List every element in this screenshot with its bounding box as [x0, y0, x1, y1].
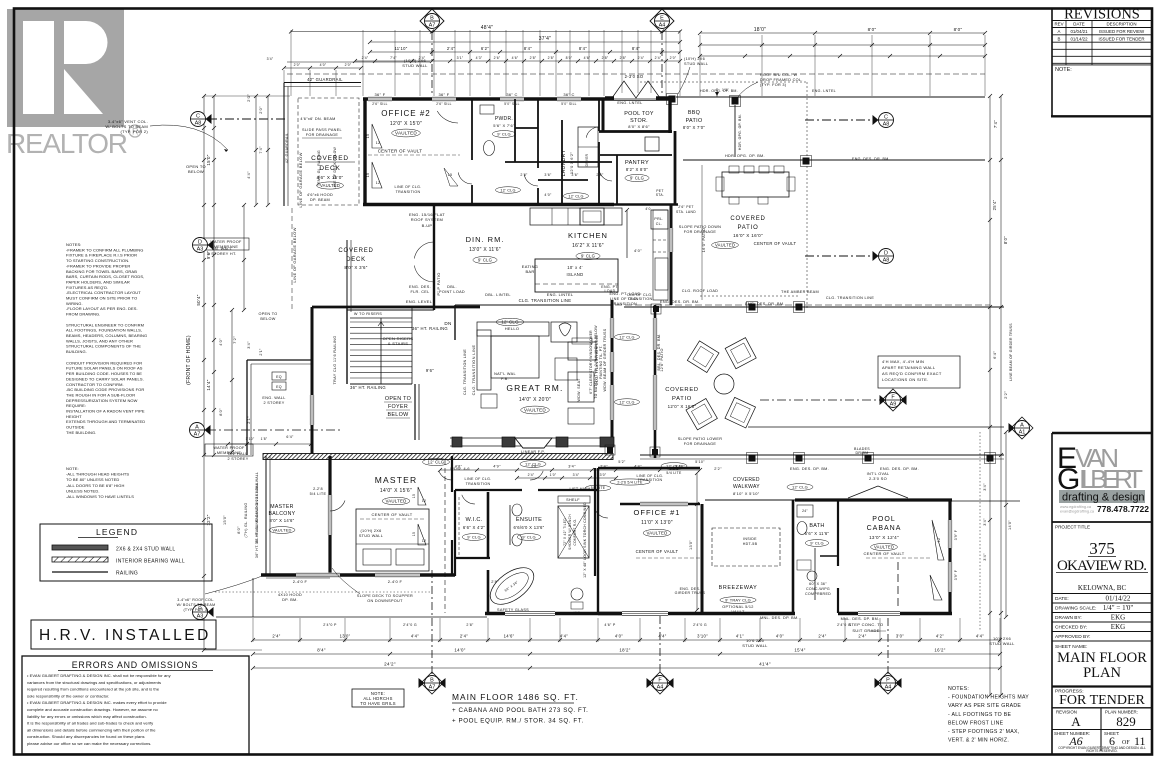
svg-text:HEIGHT: HEIGHT	[66, 414, 82, 419]
notes right bottom	[948, 686, 1029, 744]
svg-text:-ALL DOORS TO BE 6'8" HIGH: -ALL DOORS TO BE 6'8" HIGH	[66, 483, 125, 488]
svg-text:PATIO: PATIO	[686, 118, 703, 124]
svg-text:VAULTED: VAULTED	[395, 131, 417, 136]
svg-text:2-3'0 SO: 2-3'0 SO	[869, 476, 887, 481]
svg-text:ENG. LNTEL: ENG. LNTEL	[617, 101, 642, 105]
svg-text:12' CLG: 12' CLG	[619, 335, 634, 339]
svg-text:36" F: 36" F	[375, 92, 386, 97]
svg-text:ENG. WALL: ENG. WALL	[262, 396, 285, 400]
svg-text:2'4": 2'4"	[447, 46, 455, 51]
svg-text:2'4"0 G: 2'4"0 G	[403, 623, 417, 627]
svg-text:VAULTED: VAULTED	[272, 527, 291, 532]
svg-text:3'4": 3'4"	[573, 473, 580, 477]
svg-text:STUD WALL: STUD WALL	[684, 62, 708, 66]
svg-text:CHECKED BY:: CHECKED BY:	[1055, 625, 1087, 631]
svg-text:HDR. OPG. OP. BM.: HDR. OPG. OP. BM.	[700, 89, 738, 93]
svg-text:- FOUNDATION HEIGHTS MAY: - FOUNDATION HEIGHTS MAY	[948, 695, 1029, 701]
svg-text:• EVAN GILBERT DRAFTING & DESI: • EVAN GILBERT DRAFTING & DESIGN INC. ma…	[27, 700, 167, 705]
svg-text:-ELECTRICAL CONTRACTOR LAYOUT: -ELECTRICAL CONTRACTOR LAYOUT	[66, 290, 141, 295]
svg-text:-BC BUILDING CODE PROVISIONS F: -BC BUILDING CODE PROVISIONS FOR	[66, 387, 144, 392]
svg-text:829: 829	[1116, 714, 1136, 729]
svg-text:construction. Should any disc: construction. Should any discrepancies b…	[27, 734, 145, 739]
svg-text:SLOPE PATIO LOWER: SLOPE PATIO LOWER	[678, 437, 723, 441]
svg-text:STA. LAND: STA. LAND	[676, 210, 696, 214]
svg-text:5'0" SILL: 5'0" SILL	[561, 102, 576, 106]
svg-text:2-3'0 SO: 2-3'0 SO	[625, 74, 644, 79]
svg-text:2'6": 2'6"	[494, 56, 501, 60]
svg-text:HDT-5B: HDT-5B	[743, 542, 758, 546]
svg-text:11'10": 11'10"	[394, 46, 407, 51]
svg-text:2'0": 2'0"	[345, 63, 352, 67]
svg-text:LOCATIONS ON SITE.: LOCATIONS ON SITE.	[882, 377, 928, 382]
svg-text:EXTENDS THROUGH AND TERMINATED: EXTENDS THROUGH AND TERMINATED	[66, 419, 145, 424]
svg-text:MUST CONFIRM ON SITE PRIOR TO: MUST CONFIRM ON SITE PRIOR TO	[66, 296, 137, 301]
svg-text:STUD WALL: STUD WALL	[742, 643, 768, 648]
svg-text:5'2": 5'2"	[618, 460, 626, 464]
svg-text:13'0" X 12'4": 13'0" X 12'4"	[869, 535, 899, 540]
svg-text:778.478.7722: 778.478.7722	[1097, 504, 1149, 514]
svg-text:36" HT. RAILING: 36" HT. RAILING	[412, 326, 448, 331]
svg-text:4'1": 4'1"	[736, 634, 744, 639]
svg-text:FIXTURES AS REQ'D.: FIXTURES AS REQ'D.	[66, 285, 108, 290]
svg-text:W.I.C.: W.I.C.	[465, 517, 482, 523]
svg-text:liability for any errors or om: liability for any errors or omissions wh…	[27, 714, 147, 719]
svg-text:ISSUED FOR TENDER: ISSUED FOR TENDER	[1098, 36, 1144, 41]
svg-text:(TYP. FOR 3): (TYP. FOR 3)	[760, 83, 787, 87]
svg-text:THE AMBER BEAM: THE AMBER BEAM	[781, 290, 819, 294]
svg-text:LINE OF GARAGE BELOW: LINE OF GARAGE BELOW	[292, 227, 297, 282]
svg-text:5/4 LITE: 5/4 LITE	[310, 492, 327, 496]
markers (section symbols)	[186, 9, 1030, 691]
svg-text:STA.: STA.	[656, 193, 664, 197]
svg-text:3'9" F: 3'9" F	[954, 530, 958, 540]
svg-text:ALL FOOTINGS, FOUNDATION WALLS: ALL FOOTINGS, FOUNDATION WALLS,	[66, 328, 142, 333]
svg-text:A8: A8	[883, 258, 890, 264]
svg-text:14'0": 14'0"	[1008, 520, 1012, 530]
svg-text:2'6": 2'6"	[596, 173, 604, 177]
svg-text:- ALL FOOTINGS TO BE: - ALL FOOTINGS TO BE	[948, 712, 1012, 718]
svg-text:It is the responsibility of al: It is the responsibility of all trades a…	[27, 721, 154, 726]
svg-text:5/4 LITE: 5/4 LITE	[666, 471, 682, 475]
svg-text:FIXTURE & FIREPLACE R.I.S PRI: FIXTURE & FIREPLACE R.I.S PRIOR	[66, 253, 137, 258]
svg-text:• EVAN GILBERT DRAFTING & DESI: • EVAN GILBERT DRAFTING & DESIGN INC. sh…	[27, 673, 172, 678]
svg-text:4'9": 4'9"	[493, 465, 501, 469]
svg-text:DESIGNED TO CARRY SOLAR PANELS: DESIGNED TO CARRY SOLAR PANELS.	[66, 376, 144, 381]
svg-text:7'4": 7'4"	[390, 56, 397, 60]
covered patios right	[605, 82, 1004, 458]
svg-text:2'4": 2'4"	[528, 473, 535, 477]
svg-text:4'0": 4'0"	[776, 634, 784, 639]
svg-text:OPEN TO: OPEN TO	[385, 396, 411, 402]
upper strip fixtures	[437, 105, 659, 186]
svg-text:12' CLG: 12' CLG	[568, 194, 583, 198]
svg-text:7'2": 7'2"	[232, 336, 237, 344]
svg-text:COVERED: COVERED	[733, 477, 760, 483]
svg-text:www.egdrafting.ca: www.egdrafting.ca	[1060, 505, 1092, 509]
svg-text:ON DOWNSPOUT: ON DOWNSPOUT	[367, 599, 403, 603]
svg-text:REV: REV	[1054, 22, 1063, 27]
legend box	[40, 524, 212, 581]
svg-text:15'0": 15'0"	[206, 154, 211, 165]
svg-text:SLOPE DECK TO SCUPPER: SLOPE DECK TO SCUPPER	[357, 594, 413, 598]
hall dims band	[438, 460, 705, 613]
right outer dim col	[689, 471, 699, 612]
svg-text:A7: A7	[429, 23, 436, 29]
svg-text:6'6" X 4'2": 6'6" X 4'2"	[463, 525, 486, 530]
svg-text:drafting & design: drafting & design	[1062, 492, 1145, 504]
svg-text:16'0" PATIO: 16'0" PATIO	[701, 228, 706, 253]
svg-text:12: 12	[376, 141, 381, 145]
svg-text:2'0": 2'0"	[259, 106, 263, 114]
svg-text:ENG. DES. DR. BM.: ENG. DES. DR. BM.	[852, 157, 890, 161]
svg-text:EKG: EKG	[1111, 614, 1125, 622]
covered walkway strip	[640, 447, 1004, 496]
svg-text:NAT'L WAL: NAT'L WAL	[494, 372, 516, 376]
svg-text:CLG. TRANSITION LINE: CLG. TRANSITION LINE	[463, 349, 467, 395]
svg-text:EKG: EKG	[1111, 623, 1125, 631]
svg-text:8'0": 8'0"	[868, 27, 877, 32]
great room	[450, 297, 990, 454]
svg-text:2 STOREY: 2 STOREY	[227, 457, 248, 461]
svg-text:please advise our office so we: please advise our office so we can make …	[27, 741, 151, 746]
svg-text:14'6": 14'6"	[504, 634, 515, 639]
svg-text:2'8": 2'8"	[530, 56, 537, 60]
svg-text:WIRING.: WIRING.	[66, 301, 83, 306]
svg-text:OUTSIDE: OUTSIDE	[66, 425, 85, 430]
upper strip outer walls	[363, 97, 674, 100]
svg-text:2'2": 2'2"	[714, 467, 722, 471]
second density pass	[223, 89, 1033, 694]
svg-text:13'0" X 11'6": 13'0" X 11'6"	[469, 247, 501, 253]
svg-text:3'6": 3'6"	[544, 173, 552, 177]
svg-text:60" X 36": 60" X 36"	[809, 582, 827, 586]
svg-text:3'0": 3'0"	[896, 634, 904, 639]
svg-text:1'10": 1'10"	[245, 437, 255, 441]
svg-text:VAULTED: VAULTED	[386, 499, 407, 504]
svg-text:ENG. LINTEL: ENG. LINTEL	[547, 293, 574, 297]
svg-text:LINE BEAM OF GIRDER TRUSS: LINE BEAM OF GIRDER TRUSS	[1009, 323, 1013, 381]
svg-text:50'4": 50'4"	[196, 294, 201, 305]
svg-text:BELOW: BELOW	[188, 169, 204, 174]
svg-text:RIGHTS RESERVED.: RIGHTS RESERVED.	[1086, 749, 1117, 753]
svg-text:VAULTED: VAULTED	[524, 408, 546, 413]
svg-text:CL.: CL.	[656, 222, 663, 226]
svg-text:STEP CONC. TO: STEP CONC. TO	[849, 622, 884, 627]
svg-text:UNLESS NOTED.: UNLESS NOTED.	[66, 488, 100, 493]
svg-text:1'8": 1'8"	[261, 437, 268, 441]
svg-text:-ALL THROUGH HEAD HEIGHTS: -ALL THROUGH HEAD HEIGHTS	[66, 472, 129, 477]
svg-text:-FLOOR LAYOUT AS PER ENG. DES.: -FLOOR LAYOUT AS PER ENG. DES.	[66, 306, 138, 311]
svg-text:2'8": 2'8"	[602, 56, 609, 60]
svg-text:+ POOL EQUIP. RM./ STOR. 34 SQ: + POOL EQUIP. RM./ STOR. 34 SQ. FT.	[452, 718, 584, 725]
svg-text:INT'L OVAL: INT'L OVAL	[867, 472, 890, 476]
svg-text:DROP FRAMED COL.: DROP FRAMED COL.	[760, 78, 803, 82]
svg-text:16'0" X 16'0": 16'0" X 16'0"	[733, 233, 763, 238]
svg-text:STRUCTURAL COMPONENTS OF THE: STRUCTURAL COMPONENTS OF THE	[66, 344, 141, 349]
svg-text:2'4"0 G: 2'4"0 G	[693, 623, 707, 627]
svg-text:VERT. & 2' MIN HORIZ.: VERT. & 2' MIN HORIZ.	[948, 738, 1009, 744]
svg-text:REVISIONS: REVISIONS	[1064, 7, 1140, 23]
svg-text:ERRORS AND OMISSIONS: ERRORS AND OMISSIONS	[72, 660, 198, 670]
svg-text:APART RETAINING WALL: APART RETAINING WALL	[882, 365, 936, 370]
plan: right dimension columns / property lines	[950, 94, 1020, 697]
svg-text:2'8": 2'8"	[491, 580, 499, 584]
plan: left dimension columns	[196, 94, 290, 652]
svg-text:3'0": 3'0"	[600, 473, 607, 477]
svg-text:SHELF: SHELF	[566, 498, 580, 502]
svg-text:3'4": 3'4"	[267, 57, 274, 61]
svg-text:ISLAND: ISLAND	[567, 272, 584, 277]
svg-text:12: 12	[422, 499, 426, 503]
evan gilbert logo	[1052, 433, 1151, 592]
svg-text:4'4": 4'4"	[411, 634, 419, 639]
svg-text:4'4": 4'4"	[247, 171, 251, 179]
svg-text:2'0": 2'0"	[670, 56, 677, 60]
svg-text:TRANSITION: TRANSITION	[396, 190, 421, 194]
svg-text:12' CLG: 12' CLG	[792, 484, 808, 489]
svg-text:2X6 & 2X4 STUD WALL: 2X6 & 2X4 STUD WALL	[116, 547, 175, 553]
svg-text:8'4": 8'4"	[579, 46, 587, 51]
svg-text:3'6": 3'6"	[571, 173, 579, 177]
svg-text:4'0": 4'0"	[219, 338, 223, 346]
svg-text:PRL.: PRL.	[654, 217, 663, 221]
svg-text:CENTER OF VAULT: CENTER OF VAULT	[863, 551, 904, 556]
svg-text:VAULTED: VAULTED	[715, 242, 735, 247]
svg-text:CONDUIT PROVISION REQUIRED FOR: CONDUIT PROVISION REQUIRED FOR	[66, 360, 142, 365]
svg-text:4'4": 4'4"	[634, 465, 642, 469]
svg-text:DN: DN	[444, 321, 451, 326]
boxed note: head heights	[66, 466, 134, 499]
plan: bottom dimension rows	[251, 618, 1002, 670]
svg-text:9' TRAY CLG: 9' TRAY CLG	[725, 597, 751, 602]
svg-text:2'4": 2'4"	[858, 634, 866, 639]
svg-text:8'0" X 7'0": 8'0" X 7'0"	[683, 125, 706, 130]
svg-text:A7: A7	[429, 685, 436, 691]
svg-text:SAFETY GLASS: SAFETY GLASS	[497, 608, 529, 612]
svg-text:9' CLG: 9' CLG	[630, 175, 644, 180]
svg-text:2'4": 2'4"	[272, 634, 280, 639]
svg-text:8'4": 8'4"	[632, 46, 640, 51]
svg-text:13'0": 13'0"	[689, 540, 693, 550]
svg-text:REQUIRE:: REQUIRE:	[66, 403, 86, 408]
bearing wall hatched	[263, 454, 613, 460]
svg-text:3'8": 3'8"	[531, 465, 539, 469]
svg-text:36" F: 36" F	[439, 92, 450, 97]
svg-text:36" C: 36" C	[563, 92, 574, 97]
svg-text:9' CLG: 9' CLG	[581, 253, 595, 258]
svg-text:OFFICE #1: OFFICE #1	[634, 508, 681, 517]
svg-text:BATH: BATH	[809, 523, 824, 529]
svg-text:B: B	[430, 678, 434, 684]
svg-text:16'2": 16'2"	[934, 648, 945, 653]
svg-text:12'0" X 15'0": 12'0" X 15'0"	[390, 121, 422, 127]
svg-text:CENTER OF VAULT: CENTER OF VAULT	[754, 241, 797, 246]
svg-text:AS REQ'D CONFIRM EXACT: AS REQ'D CONFIRM EXACT	[882, 371, 942, 376]
svg-text:TO MATCH (TYP) 2-PLY. HIGH 5 B: TO MATCH (TYP) 2-PLY. HIGH 5 BELOW	[594, 325, 598, 399]
svg-text:BELOW: BELOW	[260, 317, 275, 321]
svg-text:PATIO: PATIO	[672, 396, 692, 402]
svg-text:NOTE:: NOTE:	[66, 466, 79, 471]
svg-text:MASTER: MASTER	[375, 475, 418, 485]
svg-text:(TYP. FOR 3): (TYP. FOR 3)	[183, 608, 208, 612]
svg-text:ROOF B/U COL. W: ROOF B/U COL. W	[760, 73, 798, 77]
svg-text:2 STOREY HT.: 2 STOREY HT.	[208, 252, 237, 256]
svg-text:D: D	[884, 251, 888, 257]
svg-text:12" X 48" LOOR SINK TORCH COMB: 12" X 48" LOOR SINK TORCH COMBINED	[583, 502, 587, 578]
svg-text:W/ BOLTS TO BEAM: W/ BOLTS TO BEAM	[177, 603, 216, 607]
svg-text:12: 12	[376, 181, 381, 185]
svg-text:CENTER OF VAULT: CENTER OF VAULT	[378, 149, 423, 154]
svg-text:variances from the structural: variances from the structural drawings a…	[27, 680, 161, 685]
svg-text:7'4": 7'4"	[993, 120, 998, 128]
svg-text:4'0": 4'0"	[544, 193, 552, 197]
svg-text:EQ: EQ	[276, 385, 282, 389]
HRV installed box	[31, 620, 216, 649]
svg-text:H.R.V. INSTALLED: H.R.V. INSTALLED	[39, 627, 211, 644]
upper strip labels	[305, 58, 705, 189]
svg-text:B: B	[430, 16, 434, 22]
svg-text:15'0": 15'0"	[223, 515, 227, 525]
svg-text:8'0": 8'0"	[954, 27, 963, 32]
left notes column	[66, 242, 147, 435]
svg-text:B: B	[1058, 36, 1061, 41]
svg-text:GREAT RM.: GREAT RM.	[506, 383, 563, 393]
svg-text:5'6" X 7'6": 5'6" X 7'6"	[493, 123, 515, 128]
svg-text:NOTE:: NOTE:	[1055, 67, 1072, 73]
svg-text:+ CABANA AND POOL BATH 273 SQ.: + CABANA AND POOL BATH 273 SQ. FT.	[452, 707, 588, 714]
svg-text:STRUCTURAL ENGINEER TO CONFIRM: STRUCTURAL ENGINEER TO CONFIRM	[66, 322, 144, 327]
svg-text:15'4": 15'4"	[794, 648, 805, 653]
svg-text:2'8": 2'8"	[466, 623, 474, 627]
svg-text:15: 15	[412, 532, 416, 536]
svg-text:RAILING: RAILING	[116, 571, 138, 577]
svg-text:NOTES:: NOTES:	[66, 242, 82, 247]
svg-text:SLOPE PATIO DOWN: SLOPE PATIO DOWN	[679, 225, 721, 229]
svg-text:2'4"0 G: 2'4"0 G	[837, 623, 851, 627]
svg-text:CENTER OF VAULT: CENTER OF VAULT	[371, 512, 412, 517]
svg-text:2-4'0 F: 2-4'0 F	[293, 579, 308, 584]
svg-text:42" GUARDRAIL: 42" GUARDRAIL	[307, 77, 343, 82]
svg-text:LEGEND: LEGEND	[96, 527, 138, 537]
svg-text:FOR TENDER: FOR TENDER	[1059, 693, 1145, 708]
svg-text:2'0": 2'0"	[294, 63, 301, 67]
svg-text:SUIT GRADE: SUIT GRADE	[852, 628, 879, 633]
svg-text:DN. HALL: DN. HALL	[228, 452, 248, 456]
svg-text:2'8": 2'8"	[620, 56, 627, 60]
svg-text:2'0": 2'0"	[246, 94, 251, 102]
svg-text:8'2" X 8'0": 8'2" X 8'0"	[626, 167, 649, 172]
svg-text:ENG. DES. DR. BM.: ENG. DES. DR. BM.	[660, 300, 700, 304]
svg-text:14'0": 14'0"	[454, 648, 465, 653]
svg-text:3'4": 3'4"	[983, 483, 987, 491]
svg-text:A: A	[195, 425, 199, 431]
svg-text:2'4": 2'4"	[460, 634, 468, 639]
svg-text:01/04/21: 01/04/21	[1070, 29, 1088, 34]
svg-text:8'0" X 3'6": 8'0" X 3'6"	[344, 265, 367, 270]
svg-text:A9: A9	[890, 402, 897, 408]
svg-text:BELOW FROST LINE: BELOW FROST LINE	[948, 720, 1004, 726]
svg-text:F.B.: F.B.	[501, 377, 509, 381]
svg-text:4'H MAX, 4'-4'H MIN: 4'H MAX, 4'-4'H MIN	[882, 359, 924, 364]
svg-text:BARS, CURTAIN RODS, CLOSET ROD: BARS, CURTAIN RODS, CLOSET RODS,	[66, 274, 144, 279]
svg-text:PAINTING TIL. PT.: PAINTING TIL. PT.	[599, 345, 603, 378]
svg-text:4'0: 4'0	[645, 207, 650, 211]
REALTOR watermark logo	[6, 9, 141, 159]
svg-text:8'0": 8'0"	[1003, 236, 1008, 244]
svg-text:3'9" F: 3'9" F	[954, 570, 958, 580]
svg-text:STUD WALL: STUD WALL	[402, 63, 428, 68]
svg-text:ENG. DES.: ENG. DES.	[409, 285, 431, 289]
svg-text:2-4'0 F: 2-4'0 F	[388, 579, 403, 584]
svg-text:TO STARTING CONSTRUCTION.: TO STARTING CONSTRUCTION.	[66, 258, 129, 263]
svg-text:WALLS, JOISTS, AND ANY OTHER: WALLS, JOISTS, AND ANY OTHER	[66, 338, 133, 343]
plan: top dimension lines	[287, 25, 987, 96]
svg-text:A8: A8	[883, 122, 890, 128]
svg-text:2-2'8: 2-2'8	[313, 487, 323, 491]
svg-text:36" HT. GL. RAILING ON 2X1 2X4: 36" HT. GL. RAILING ON 2X1 2X4 WALL	[255, 472, 259, 544]
svg-text:4'6": 4'6"	[512, 56, 519, 60]
stairs block	[310, 299, 524, 455]
svg-text:2'8": 2'8"	[548, 56, 555, 60]
svg-text:PAPER HOLDERS, AND SIMILAR: PAPER HOLDERS, AND SIMILAR	[66, 279, 130, 284]
svg-text:A8: A8	[195, 121, 202, 127]
svg-text:72" X 42" TILED: 72" X 42" TILED	[563, 518, 567, 546]
svg-text:INSTALLATION OF A RADON VENT P: INSTALLATION OF A RADON VENT PIPE	[66, 409, 145, 414]
svg-text:4'6" P: 4'6" P	[604, 623, 615, 627]
svg-text:42' GUARDRAIL: 42' GUARDRAIL	[285, 133, 289, 164]
svg-text:FLR. CEL: FLR. CEL	[410, 290, 429, 294]
svg-text:evan@egdrafting.ca: evan@egdrafting.ca	[1060, 510, 1095, 514]
svg-text:PWDR.: PWDR.	[495, 116, 513, 122]
svg-text:48'4": 48'4"	[481, 25, 494, 31]
svg-text:DBL.: DBL.	[447, 285, 457, 289]
svg-text:FOYER: FOYER	[388, 404, 408, 410]
svg-text:FUTURE SOLAR PANELS ON ROOF AS: FUTURE SOLAR PANELS ON ROOF AS	[66, 366, 143, 371]
svg-text:BALCONY: BALCONY	[269, 511, 296, 517]
svg-text:6'4": 6'4"	[992, 351, 997, 359]
svg-text:3-4"x6" ROOF COL.: 3-4"x6" ROOF COL.	[177, 598, 214, 602]
svg-text:2'4": 2'4"	[818, 634, 826, 639]
svg-text:KITCHEN: KITCHEN	[568, 231, 608, 240]
svg-text:NOTES:: NOTES:	[948, 686, 969, 692]
svg-text:DN. WALL: DN. WALL	[212, 247, 232, 251]
svg-text:OPEN TO: OPEN TO	[258, 312, 277, 316]
svg-text:PANTRY: PANTRY	[625, 160, 649, 166]
svg-text:CONC-WIPG: CONC-WIPG	[806, 587, 830, 591]
svg-text:ENG. LNTEL: ENG. LNTEL	[812, 89, 836, 93]
svg-text:TRANSITION: TRANSITION	[611, 302, 637, 306]
kitchen band	[203, 152, 673, 456]
svg-text:ROOF SYSTEM: ROOF SYSTEM	[411, 217, 443, 222]
svg-text:A4: A4	[657, 685, 664, 691]
svg-text:DECK: DECK	[346, 257, 366, 263]
svg-text:PROJECT TITLE: PROJECT TITLE	[1055, 525, 1090, 530]
svg-text:2'6" SILL: 2'6" SILL	[372, 102, 387, 106]
master suite band	[216, 456, 632, 617]
svg-text:CLG. TRANSITION LINE: CLG. TRANSITION LINE	[826, 296, 875, 300]
svg-text:WDW. BEAM OF GIRDER TRUSS: WDW. BEAM OF GIRDER TRUSS	[603, 328, 607, 391]
svg-text:STUD WALL: STUD WALL	[359, 534, 383, 538]
svg-text:ENG. DES. DP. BM.: ENG. DES. DP. BM.	[790, 467, 829, 471]
svg-text:LAUNDRY: LAUNDRY	[561, 149, 567, 176]
svg-text:WDW. SEAT: WDW. SEAT	[577, 378, 581, 402]
svg-text:DP. BM.: DP. BM.	[282, 598, 298, 602]
master slope triangles	[412, 487, 426, 545]
covered deck guardrail	[284, 82, 361, 84]
svg-text:15: 15	[366, 134, 370, 139]
svg-text:WATER PROOF: WATER PROOF	[213, 446, 245, 450]
svg-text:(7'H) GL. RAILING: (7'H) GL. RAILING	[244, 503, 248, 538]
